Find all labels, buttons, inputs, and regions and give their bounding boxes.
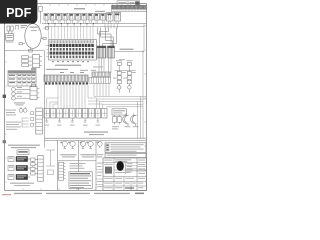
- generator G1 (large oval): [25, 24, 41, 49]
- notes text A: [6, 110, 16, 116]
- panel3 cell lines: [96, 169, 103, 184]
- J3 ladder marks: [30, 112, 33, 126]
- panel3 caption: [97, 154, 104, 157]
- label GRL 70-8: [74, 8, 85, 9]
- connector block J5: [59, 162, 66, 180]
- fuse F1: [7, 26, 10, 33]
- terminal strip X1 hatch: [44, 75, 88, 81]
- title mid lower text: [115, 172, 136, 189]
- load table: [8, 71, 36, 86]
- matrix left stubs: [46, 45, 48, 56]
- wires to J3: [22, 118, 29, 127]
- junction ladder: [31, 158, 38, 175]
- terminal strip X0 (hatched bar): [112, 5, 147, 8]
- matrix bottom marks: [52, 61, 89, 62]
- footer text below frame: [14, 193, 144, 195]
- bell B2: [70, 141, 75, 148]
- terminal strip X0b: [112, 9, 147, 11]
- bus junction dots: [48, 23, 94, 24]
- distribution row D1..D10: [44, 108, 107, 118]
- amp row 3 box: [8, 175, 14, 180]
- title right col text: [138, 160, 145, 189]
- fuse trio row 3: [22, 64, 33, 67]
- fuse trio row 1: [22, 56, 33, 59]
- approval stamp: [105, 167, 112, 174]
- bell B1: [62, 141, 67, 148]
- amp row 3 wire: [28, 176, 30, 178]
- svg-text:PDF: PDF: [6, 6, 31, 20]
- matrix dark row4: [50, 52, 94, 55]
- mid-left marks: [46, 150, 55, 175]
- section divider bottom: [45, 138, 147, 140]
- wire fan to matrix: [49, 24, 94, 40]
- bell B5: [97, 141, 102, 148]
- section divider left: [5, 51, 45, 148]
- wires to right block: [105, 24, 144, 50]
- connector block J3: [36, 108, 43, 134]
- notes box center: [69, 172, 92, 189]
- fuse stack FS1: [117, 62, 121, 92]
- connector block J1: [33, 55, 42, 68]
- relay row K1..K10: [44, 13, 106, 20]
- relay row top marks: [45, 14, 105, 16]
- title box text: [119, 1, 140, 4]
- panel sub line: [58, 160, 96, 162]
- matrix label: [55, 65, 81, 66]
- title block outline: [103, 158, 146, 190]
- connector block J4: [38, 155, 44, 181]
- matrix outer box: [49, 40, 97, 60]
- matrix row3 dark dots: [50, 48, 94, 51]
- fuse stack labels: [113, 60, 136, 78]
- amp row 2 dark unit: [16, 165, 28, 171]
- breaker block striped A: [97, 46, 106, 58]
- title left col text: [104, 160, 113, 189]
- label 2x panel3: [97, 142, 99, 144]
- matrix row5 dots: [50, 56, 94, 59]
- frame tick marks: [5, 4, 147, 191]
- label box pikli tip: [17, 150, 29, 155]
- logo side text: [127, 163, 133, 172]
- transfo symbol T2: [131, 113, 137, 126]
- wires breakers to X2: [99, 58, 111, 73]
- panel1 caption: [61, 154, 77, 157]
- terminal strip X2 cells: [89, 77, 111, 83]
- label sebeke tevziat: [84, 131, 108, 135]
- legend box A: [105, 143, 146, 153]
- logo cell divider: [124, 163, 126, 174]
- meter M3: [12, 96, 30, 100]
- amp row 1 box: [8, 157, 14, 162]
- labels under row: [45, 125, 101, 126]
- amp row 1 wire: [28, 158, 30, 160]
- salt box: [112, 109, 127, 115]
- matrix dark row2: [50, 44, 94, 47]
- connector block J2: [30, 84, 39, 99]
- labels tel: [112, 126, 139, 129]
- wire from badge: [38, 26, 40, 31]
- relay row inner contacts: [46, 14, 105, 19]
- company logo oval: [117, 161, 124, 171]
- bell B3: [80, 141, 85, 148]
- logo side rows: [125, 165, 137, 171]
- label mid strip: [46, 69, 68, 70]
- wire bundle to right: [94, 96, 146, 106]
- drawing border frame: [5, 4, 147, 191]
- amp row 2 box: [8, 166, 14, 171]
- fuse stack tie wire: [115, 69, 137, 71]
- label 2x panel2: [80, 142, 89, 144]
- ground symbols under row: [45, 118, 99, 122]
- contactor Q1: [107, 13, 114, 21]
- panel divider P2: [78, 140, 80, 190]
- mid strip tiny marks: [60, 72, 84, 73]
- label P mark: [21, 25, 28, 28]
- matrix hatched bar row1: [50, 40, 94, 43]
- amp row 3 dark unit: [16, 174, 28, 180]
- X1 route jogs: [47, 98, 103, 108]
- page background: [0, 0, 149, 198]
- terminal strip X2 hatch: [92, 72, 111, 76]
- label tiny right: [93, 59, 125, 67]
- terminal stub C: [41, 37, 47, 39]
- frame margin mark B: [3, 140, 6, 143]
- wire on-off to frame: [115, 50, 145, 53]
- amp row 1 dark unit: [16, 156, 28, 162]
- PDF badge: [0, 0, 37, 24]
- routed wires to breakers: [98, 28, 117, 47]
- label 2x panel1: [60, 142, 70, 144]
- title block hlines: [103, 163, 146, 191]
- bus wire lower: [45, 25, 144, 27]
- panel divider P1: [57, 140, 59, 190]
- bus wire upper: [42, 23, 146, 25]
- contactor Q2: [114, 13, 121, 21]
- label sayac: [14, 87, 25, 105]
- label GRA 70-8: [95, 11, 105, 12]
- legend box B: [105, 153, 146, 157]
- meter box P1: [6, 34, 14, 43]
- bell B4: [88, 141, 93, 148]
- right edge verticals: [138, 50, 144, 138]
- relay drop wires: [46, 20, 119, 24]
- panel divider P3: [95, 140, 97, 190]
- meter M1: [12, 88, 30, 92]
- panel3 text cells: [97, 163, 102, 188]
- label oto transformer: [8, 145, 40, 149]
- panel12 upper text: [70, 163, 86, 169]
- aux box near badge: [39, 7, 43, 24]
- terminal stub A: [19, 43, 25, 45]
- distribution row inner: [44, 109, 107, 116]
- frame margin mark A: [3, 95, 6, 98]
- panel2 caption: [81, 154, 96, 157]
- X2 drop wires: [94, 83, 109, 96]
- notes text B: [6, 122, 21, 130]
- fuse trio row 2: [22, 60, 33, 63]
- generator label: [30, 27, 38, 32]
- footer red mark: [2, 194, 11, 195]
- breaker block striped B: [108, 46, 115, 58]
- fuse F2: [11, 26, 14, 33]
- transfo symbol T1: [123, 113, 129, 126]
- switch S1: [15, 26, 19, 30]
- meter M2: [12, 92, 30, 96]
- title right col lines: [137, 166, 146, 171]
- label on-off switch: [120, 49, 134, 50]
- X1 drop wires: [58, 85, 88, 108]
- amp cluster labels: [10, 183, 34, 186]
- matrix side label: [80, 70, 96, 71]
- terminal stub B: [29, 48, 33, 52]
- fuse stack FS2: [127, 62, 131, 92]
- table corner mark: [31, 68, 36, 70]
- X1 dark dots row: [45, 82, 88, 84]
- lamp pair L1: [19, 107, 27, 112]
- title mid top text: [115, 159, 131, 162]
- title box top-right: [117, 1, 140, 5]
- relay pair under salt: [113, 115, 122, 124]
- terminal stub D: [43, 27, 48, 29]
- amp row 2 wire: [28, 167, 30, 169]
